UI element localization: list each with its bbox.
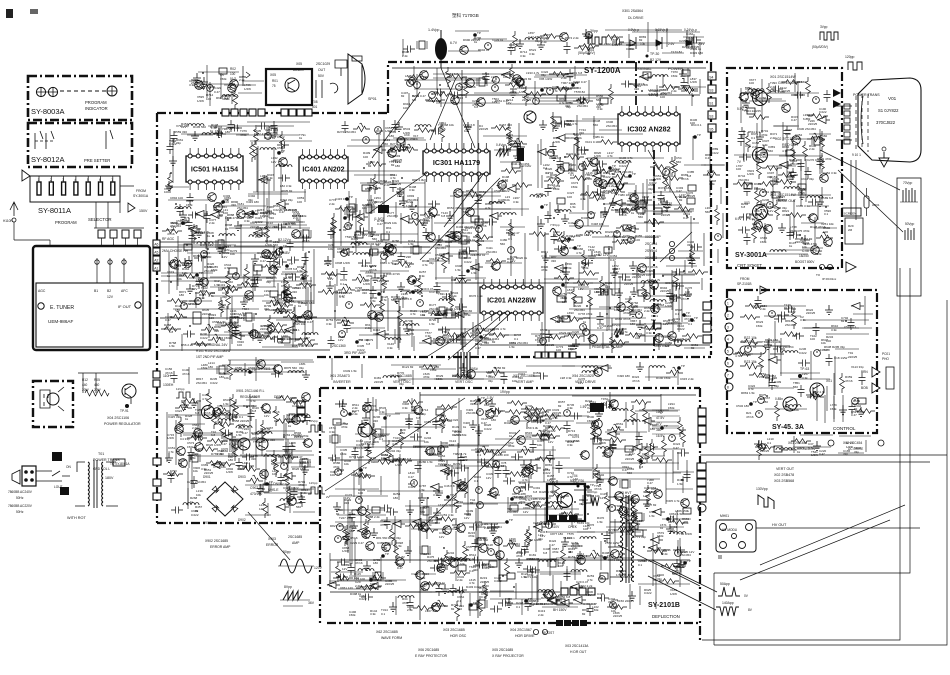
ground — [515, 558, 523, 567]
label — [357, 344, 365, 352]
svg-text:X04 2SC1567: X04 2SC1567 — [510, 628, 532, 632]
svg-text:150k: 150k — [760, 240, 767, 244]
inductor — [202, 133, 218, 135]
capacitor — [677, 450, 689, 457]
svg-text:50Hz: 50Hz — [16, 510, 24, 514]
svg-text:TP-30: TP-30 — [650, 52, 659, 56]
transistor — [387, 149, 397, 158]
svg-text:2.2k: 2.2k — [329, 202, 335, 206]
tuner E.TUNER UEM-986AF — [33, 246, 150, 350]
svg-text:C253 3.3k: C253 3.3k — [440, 513, 454, 517]
svg-text:6.8: 6.8 — [195, 411, 200, 415]
diode — [556, 135, 569, 142]
svg-text:C623 470k: C623 470k — [294, 434, 309, 438]
test point — [195, 271, 203, 277]
label — [630, 319, 637, 326]
transistor — [543, 590, 553, 599]
label — [574, 90, 585, 94]
svg-text:C253 100: C253 100 — [265, 128, 278, 132]
black component C408 — [368, 200, 389, 221]
junction — [538, 530, 540, 532]
junction — [192, 276, 194, 278]
svg-text:560: 560 — [593, 123, 598, 127]
potentiometer — [201, 324, 218, 333]
svg-text:1.5k: 1.5k — [223, 402, 229, 406]
svg-text:150k: 150k — [553, 187, 560, 191]
svg-text:150k: 150k — [571, 185, 578, 189]
resistor — [505, 558, 510, 578]
svg-text:2M: 2M — [848, 228, 853, 232]
svg-text:560: 560 — [383, 142, 388, 146]
svg-text:A6: A6 — [154, 243, 158, 247]
label — [344, 459, 352, 466]
svg-text:2.2k: 2.2k — [239, 78, 245, 82]
svg-text:150k: 150k — [682, 521, 689, 525]
label — [279, 206, 287, 214]
junction — [415, 205, 417, 207]
label — [354, 572, 361, 580]
label — [281, 189, 293, 193]
capacitor — [644, 293, 651, 300]
svg-text:150k: 150k — [614, 308, 621, 312]
transistor — [580, 451, 590, 460]
svg-text:TP: TP — [349, 195, 353, 199]
label — [339, 290, 345, 298]
svg-text:19Vpp: 19Vpp — [500, 390, 510, 394]
ground — [435, 488, 443, 497]
label — [509, 431, 517, 438]
svg-text:D494 2SC454: D494 2SC454 — [456, 225, 475, 229]
capacitor — [666, 516, 678, 523]
svg-text:R929 10k: R929 10k — [384, 221, 397, 225]
resistor — [616, 226, 636, 231]
label — [505, 195, 510, 202]
svg-text:3.3k: 3.3k — [665, 205, 671, 209]
svg-text:4.7k: 4.7k — [567, 475, 573, 479]
capacitor — [447, 470, 459, 477]
label — [194, 342, 206, 346]
junction — [395, 128, 397, 130]
picture tube V01 — [858, 78, 921, 162]
label — [222, 251, 230, 259]
label — [439, 414, 446, 422]
label — [649, 178, 657, 185]
diode — [244, 211, 257, 218]
label — [600, 492, 607, 500]
junction — [693, 218, 695, 220]
crystal — [421, 507, 431, 515]
svg-text:150k: 150k — [668, 406, 675, 410]
diode — [547, 597, 560, 604]
crystal — [459, 236, 469, 244]
svg-text:C653 1.5k: C653 1.5k — [424, 420, 438, 424]
resistor — [399, 429, 404, 449]
label — [384, 180, 392, 187]
junction — [476, 195, 478, 197]
svg-text:560: 560 — [456, 504, 461, 508]
label — [265, 210, 272, 218]
svg-text:470k: 470k — [546, 175, 553, 179]
resistor — [573, 99, 593, 104]
label — [292, 214, 307, 218]
svg-text:IF OUT: IF OUT — [118, 304, 132, 309]
label — [566, 152, 580, 156]
ground — [404, 546, 412, 555]
transistor — [593, 428, 602, 437]
svg-text:330: 330 — [251, 282, 256, 286]
ground — [588, 251, 596, 260]
resistor — [625, 333, 645, 338]
svg-text:4.7k: 4.7k — [469, 581, 475, 585]
label — [367, 242, 381, 246]
label — [567, 471, 574, 479]
photo coupler PC01 — [861, 352, 894, 393]
svg-text:1/2W: 1/2W — [670, 592, 677, 596]
ground — [679, 69, 687, 78]
svg-text:1k: 1k — [167, 274, 171, 278]
label — [366, 515, 380, 519]
svg-text:T08: T08 — [312, 100, 318, 104]
svg-text:6.8: 6.8 — [853, 402, 858, 406]
capacitor — [189, 231, 196, 243]
resistor — [633, 190, 638, 210]
svg-text:X05: X05 — [270, 73, 276, 77]
label — [688, 319, 696, 326]
junction — [542, 420, 544, 422]
test point — [279, 244, 287, 250]
svg-text:3: 3 — [727, 326, 729, 330]
long wire loop right 2 — [714, 268, 910, 573]
connector — [229, 268, 237, 274]
ground — [542, 253, 550, 262]
svg-text:2SC454: 2SC454 — [429, 307, 440, 311]
svg-text:100: 100 — [230, 72, 236, 76]
label — [633, 535, 646, 539]
svg-text:C532 180: C532 180 — [736, 404, 749, 408]
resistor — [390, 146, 410, 151]
ground — [371, 273, 379, 282]
svg-text:330: 330 — [362, 291, 367, 295]
resistor — [521, 407, 541, 412]
waveform 70Vpp yoke — [900, 181, 918, 202]
label — [362, 203, 370, 210]
svg-text:33p: 33p — [397, 374, 402, 378]
label — [376, 239, 383, 247]
svg-text:220/25: 220/25 — [204, 471, 214, 475]
svg-text:C888 2.2k: C888 2.2k — [366, 515, 380, 519]
capacitor — [411, 480, 418, 487]
connector — [574, 297, 582, 303]
label — [411, 405, 417, 412]
svg-text:L793 330: L793 330 — [287, 337, 300, 341]
label — [593, 472, 600, 479]
svg-text:2.2k: 2.2k — [451, 294, 457, 298]
label — [640, 559, 653, 563]
label — [225, 223, 233, 231]
capacitor — [429, 92, 436, 99]
label — [273, 204, 281, 212]
svg-text:12V: 12V — [239, 316, 244, 320]
svg-text:0.47: 0.47 — [683, 216, 689, 220]
svg-text:100: 100 — [248, 370, 253, 374]
inductor — [674, 340, 690, 342]
label — [509, 341, 517, 349]
label — [177, 273, 184, 281]
label — [508, 441, 515, 448]
svg-text:0.1: 0.1 — [242, 311, 247, 315]
label — [367, 198, 375, 206]
svg-text:R222 2.2k: R222 2.2k — [566, 152, 580, 156]
label — [213, 204, 221, 212]
svg-text:470k: 470k — [180, 221, 187, 225]
connector — [381, 234, 389, 240]
power transformer T01 — [67, 452, 130, 520]
label — [676, 186, 684, 193]
ground — [420, 218, 428, 227]
label — [334, 318, 345, 322]
svg-text:R626 180: R626 180 — [292, 467, 305, 471]
svg-text:HOR DRIVE: HOR DRIVE — [515, 634, 535, 638]
audio output box — [266, 69, 312, 105]
antenna terminal — [3, 202, 18, 223]
svg-text:T872 470k: T872 470k — [254, 132, 269, 136]
label — [508, 233, 516, 241]
labels hor stage row — [376, 608, 589, 658]
resistor — [554, 276, 574, 281]
inductor — [439, 299, 455, 301]
label — [392, 259, 400, 266]
label — [362, 404, 368, 412]
svg-text:180: 180 — [780, 90, 785, 94]
rail deflection mid — [330, 460, 690, 592]
transistor — [407, 276, 417, 285]
label — [585, 399, 593, 407]
diode — [369, 583, 382, 590]
svg-text:X778 1/2W: X778 1/2W — [349, 455, 364, 459]
label — [362, 288, 370, 295]
label — [174, 263, 190, 267]
svg-text:4.7k: 4.7k — [381, 298, 387, 302]
crystal — [561, 163, 571, 171]
resistor — [168, 173, 173, 193]
svg-text:47/16: 47/16 — [167, 232, 175, 236]
label — [199, 293, 207, 300]
labels pif amp row — [196, 343, 366, 371]
label — [624, 278, 634, 286]
connector — [512, 162, 520, 168]
label — [299, 320, 313, 324]
svg-text:R863 1.5k: R863 1.5k — [741, 391, 755, 395]
resistor — [614, 528, 634, 533]
resistor — [545, 426, 565, 431]
label — [635, 234, 643, 242]
label — [426, 519, 433, 527]
label — [550, 173, 560, 180]
svg-text:T173 82: T173 82 — [671, 50, 682, 54]
svg-text:150k: 150k — [632, 207, 639, 211]
svg-text:180: 180 — [289, 299, 294, 303]
svg-text:36V: 36V — [308, 601, 315, 605]
junction — [586, 305, 588, 307]
connector — [270, 291, 278, 297]
resistor — [525, 407, 530, 427]
diode — [276, 201, 289, 208]
transistor — [362, 530, 371, 539]
test point — [524, 597, 532, 603]
capacitor — [522, 542, 529, 554]
rail mid right — [455, 95, 700, 283]
svg-text:47/16: 47/16 — [189, 302, 197, 306]
svg-text:4.7k: 4.7k — [576, 251, 582, 255]
svg-text:SY-8011A: SY-8011A — [38, 206, 71, 215]
capacitor — [345, 223, 352, 230]
ground — [629, 307, 637, 316]
transistor — [415, 571, 425, 580]
svg-text:SY-8003A: SY-8003A — [31, 107, 65, 116]
label — [538, 533, 543, 541]
capacitor — [204, 211, 211, 223]
label — [377, 276, 384, 283]
label — [299, 282, 311, 286]
potentiometer — [681, 85, 698, 94]
label — [573, 477, 579, 485]
connector boxes power right — [297, 401, 305, 421]
label — [446, 307, 461, 311]
label — [210, 125, 218, 133]
label — [193, 254, 206, 258]
label — [447, 230, 455, 238]
label — [340, 448, 348, 456]
label — [288, 328, 300, 332]
resistor — [559, 512, 579, 517]
ground — [666, 524, 674, 533]
svg-text:10k: 10k — [413, 137, 418, 141]
resistor — [454, 493, 459, 513]
label — [623, 521, 631, 529]
waveform 11Vpp band — [308, 481, 330, 499]
diode — [487, 492, 500, 499]
junction — [447, 341, 449, 343]
capacitor — [581, 260, 593, 267]
capacitor — [664, 200, 671, 212]
svg-text:S1: S1 — [709, 102, 713, 106]
label — [539, 77, 552, 81]
capacitor — [570, 516, 582, 523]
svg-text:47/16: 47/16 — [519, 495, 527, 499]
label — [434, 581, 446, 585]
capacitor — [433, 417, 440, 429]
label — [389, 160, 400, 164]
label — [470, 399, 478, 406]
connector — [688, 185, 696, 191]
label — [330, 470, 337, 477]
test point — [660, 424, 668, 430]
label — [269, 212, 277, 220]
capacitor — [577, 551, 584, 563]
label — [583, 602, 597, 606]
svg-text:470k: 470k — [298, 483, 305, 487]
svg-text:4.7k: 4.7k — [202, 397, 208, 401]
label — [479, 124, 489, 131]
label — [397, 191, 405, 198]
label — [237, 202, 248, 210]
resistor — [572, 287, 577, 307]
svg-text:82: 82 — [533, 374, 537, 378]
label — [481, 592, 489, 599]
svg-text:T21 330: T21 330 — [264, 438, 275, 442]
sawtooth 1.5V deflection — [474, 396, 494, 404]
svg-text:180: 180 — [400, 431, 405, 435]
label — [619, 210, 627, 217]
svg-text:180: 180 — [562, 300, 567, 304]
svg-text:33p: 33p — [843, 452, 848, 456]
capacitor — [196, 277, 203, 289]
label — [660, 286, 670, 293]
capacitor — [472, 539, 479, 551]
svg-text:0.47: 0.47 — [346, 227, 352, 231]
label — [670, 588, 677, 596]
diode — [573, 597, 586, 604]
potentiometer — [208, 334, 225, 343]
label — [419, 484, 427, 492]
capacitor — [275, 259, 287, 266]
svg-text:C466 1/2W: C466 1/2W — [526, 538, 541, 542]
svg-text:82: 82 — [466, 548, 470, 552]
label — [242, 212, 258, 216]
svg-text:T30 1/2W: T30 1/2W — [679, 532, 692, 536]
svg-text:0.47: 0.47 — [597, 326, 603, 330]
svg-text:C389 2.2k: C389 2.2k — [377, 541, 391, 545]
svg-text:R604 1k: R604 1k — [478, 48, 490, 52]
label — [466, 408, 477, 415]
transistor — [279, 158, 288, 167]
transistor — [618, 507, 628, 516]
label — [373, 558, 381, 565]
svg-text:C838 1/2W: C838 1/2W — [335, 261, 350, 265]
capacitor — [194, 255, 206, 262]
svg-text:4.7k: 4.7k — [290, 400, 296, 404]
label — [602, 191, 610, 198]
svg-text:220/25: 220/25 — [385, 582, 395, 586]
svg-text:0.47: 0.47 — [397, 566, 403, 570]
svg-text:2: 2 — [50, 178, 52, 182]
svg-text:180: 180 — [752, 222, 757, 226]
label — [506, 231, 520, 235]
svg-text:100: 100 — [363, 155, 368, 159]
svg-text:D970 12V: D970 12V — [681, 550, 694, 554]
svg-text:X113 33p: X113 33p — [851, 365, 864, 369]
capacitor — [423, 228, 430, 240]
svg-text:4.7k: 4.7k — [438, 458, 444, 462]
label — [568, 344, 576, 351]
svg-text:C965 3.3k: C965 3.3k — [796, 204, 810, 208]
svg-text:1/2W: 1/2W — [395, 463, 402, 467]
svg-text:HV MODU: HV MODU — [722, 528, 738, 532]
svg-text:1/2W: 1/2W — [244, 87, 251, 91]
label — [335, 291, 353, 295]
svg-text:150k: 150k — [585, 36, 592, 40]
diode — [642, 418, 655, 425]
label — [566, 101, 574, 109]
label — [582, 608, 590, 616]
label — [473, 564, 481, 572]
svg-text:10k: 10k — [635, 336, 640, 340]
svg-text:TP: TP — [664, 424, 668, 428]
svg-text:0.47: 0.47 — [528, 35, 534, 39]
resistor — [612, 240, 632, 245]
svg-text:SY-8012A: SY-8012A — [31, 155, 65, 164]
svg-text:4.7k: 4.7k — [250, 399, 256, 403]
